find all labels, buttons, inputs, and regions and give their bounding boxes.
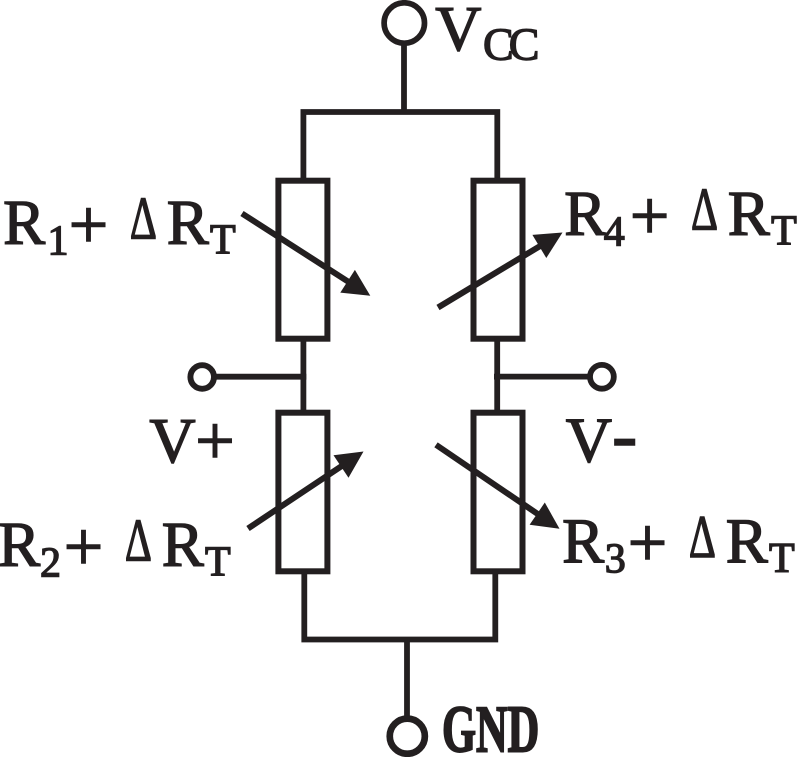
svg-text:T: T — [769, 536, 795, 582]
svg-text:R: R — [728, 179, 770, 249]
label R3+ΔRT — [562, 505, 795, 583]
wire left mid connector — [300, 336, 306, 415]
svg-text:2: 2 — [40, 540, 61, 586]
terminal VCC — [384, 3, 424, 43]
svg-text:R: R — [3, 188, 45, 258]
svg-text:+: + — [628, 505, 667, 582]
svg-text:V: V — [149, 405, 195, 476]
svg-text:R: R — [564, 179, 606, 249]
svg-text:+: + — [630, 178, 669, 255]
resistor R3 (variable) — [436, 413, 560, 572]
wire bottom rail — [304, 569, 495, 640]
svg-text:Δ: Δ — [125, 508, 152, 574]
label V- — [566, 393, 638, 477]
svg-text:V: V — [435, 0, 481, 64]
svg-text:4: 4 — [604, 209, 625, 255]
terminal GND — [390, 719, 425, 754]
wire GND stem — [404, 640, 410, 718]
svg-text:+: + — [64, 509, 103, 586]
label R2+ΔRT — [0, 508, 231, 586]
label V+ — [149, 403, 234, 480]
label GND — [442, 694, 539, 757]
svg-text:CC: CC — [483, 19, 538, 70]
terminal V- — [590, 365, 614, 389]
svg-text:+: + — [69, 187, 108, 264]
resistor R2 (variable) — [248, 413, 364, 572]
wire VCC stem — [401, 44, 407, 114]
wire top rail — [303, 112, 497, 182]
svg-text:1: 1 — [48, 218, 69, 264]
svg-text:Δ: Δ — [689, 505, 716, 571]
svg-text:V: V — [566, 405, 612, 476]
svg-text:GND: GND — [442, 694, 539, 757]
svg-text:T: T — [210, 218, 236, 264]
svg-text:R: R — [562, 506, 604, 576]
svg-text:T: T — [771, 209, 797, 255]
svg-text:T: T — [205, 540, 231, 586]
label R1+ΔRT — [3, 186, 236, 264]
svg-text:3: 3 — [605, 537, 626, 583]
svg-text:R: R — [0, 510, 40, 580]
svg-text:R: R — [167, 188, 209, 258]
svg-text:+: + — [195, 403, 234, 480]
svg-text:Δ: Δ — [691, 177, 718, 243]
terminal V+ — [190, 365, 214, 389]
svg-text:Δ: Δ — [130, 186, 157, 252]
svg-text:-: - — [612, 393, 637, 477]
resistor R4 (variable) — [438, 181, 563, 339]
wire V+ tap — [216, 374, 306, 380]
label VCC — [435, 0, 537, 70]
wire right mid connector — [494, 336, 500, 415]
resistor R1 (variable) — [242, 181, 370, 339]
svg-text:R: R — [726, 506, 768, 576]
label R4+ΔRT — [564, 177, 797, 255]
wire V- tap — [494, 374, 588, 380]
svg-text:R: R — [162, 510, 204, 580]
